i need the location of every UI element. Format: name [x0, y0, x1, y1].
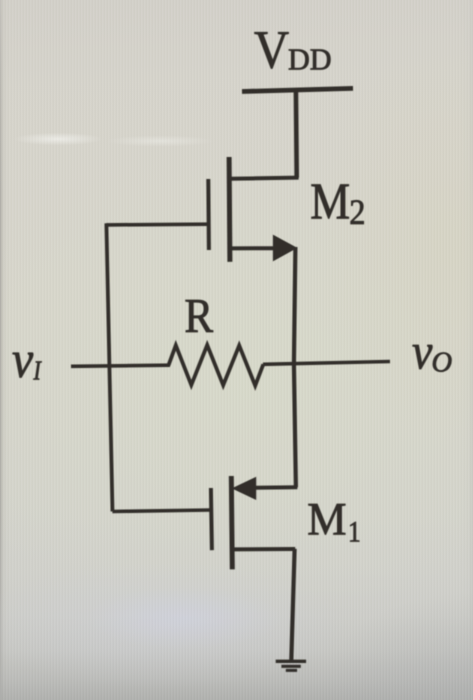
wire output node to M1 drain — [294, 364, 296, 488]
wire M1 source to ground — [291, 549, 294, 660]
label M1 — [307, 492, 361, 549]
label M2 — [310, 174, 365, 233]
svg-text:O: O — [432, 348, 453, 379]
transistor M2 source arrow — [273, 235, 297, 262]
wire M2 source to output node — [294, 247, 296, 364]
svg-text:1: 1 — [348, 516, 361, 549]
wire M2 gate lead — [106, 222, 208, 226]
wire M1 gate lead — [112, 510, 210, 512]
wire vI lead (input to resistor) — [71, 365, 170, 366]
svg-text:M: M — [310, 174, 350, 231]
svg-text:V: V — [254, 20, 289, 80]
wire input net vertical (M2 gate to M1 gate) — [106, 223, 112, 511]
ground — [276, 661, 306, 670]
svg-text:M: M — [307, 492, 346, 545]
label VDD — [254, 20, 332, 80]
transistor M1 source lead — [232, 547, 295, 551]
transistor M1 drain lead — [254, 485, 297, 490]
label R — [184, 288, 213, 342]
svg-text:v: v — [412, 324, 433, 380]
transistor M2 channel bar — [227, 157, 233, 262]
transistor M2 gate bar — [206, 179, 211, 250]
transistor M2 source lead — [230, 246, 276, 250]
label vO — [412, 324, 452, 380]
transistor M1 gate bar — [211, 488, 212, 550]
wire VDD bar to M2 drain corner — [294, 90, 299, 178]
svg-text:2: 2 — [349, 192, 365, 232]
svg-text:DD: DD — [288, 42, 332, 76]
transistor M1 channel bar — [231, 476, 232, 569]
label vI — [12, 330, 42, 389]
resistor R — [169, 345, 264, 386]
svg-text:R: R — [184, 288, 213, 342]
svg-text:I: I — [33, 356, 43, 386]
VDD supply bar — [242, 88, 353, 91]
svg-text:v: v — [12, 330, 34, 389]
transistor M2 drain lead — [229, 178, 299, 179]
wire resistor to vO (through output node) — [263, 362, 390, 365]
transistor M1 drain arrow — [232, 477, 257, 500]
